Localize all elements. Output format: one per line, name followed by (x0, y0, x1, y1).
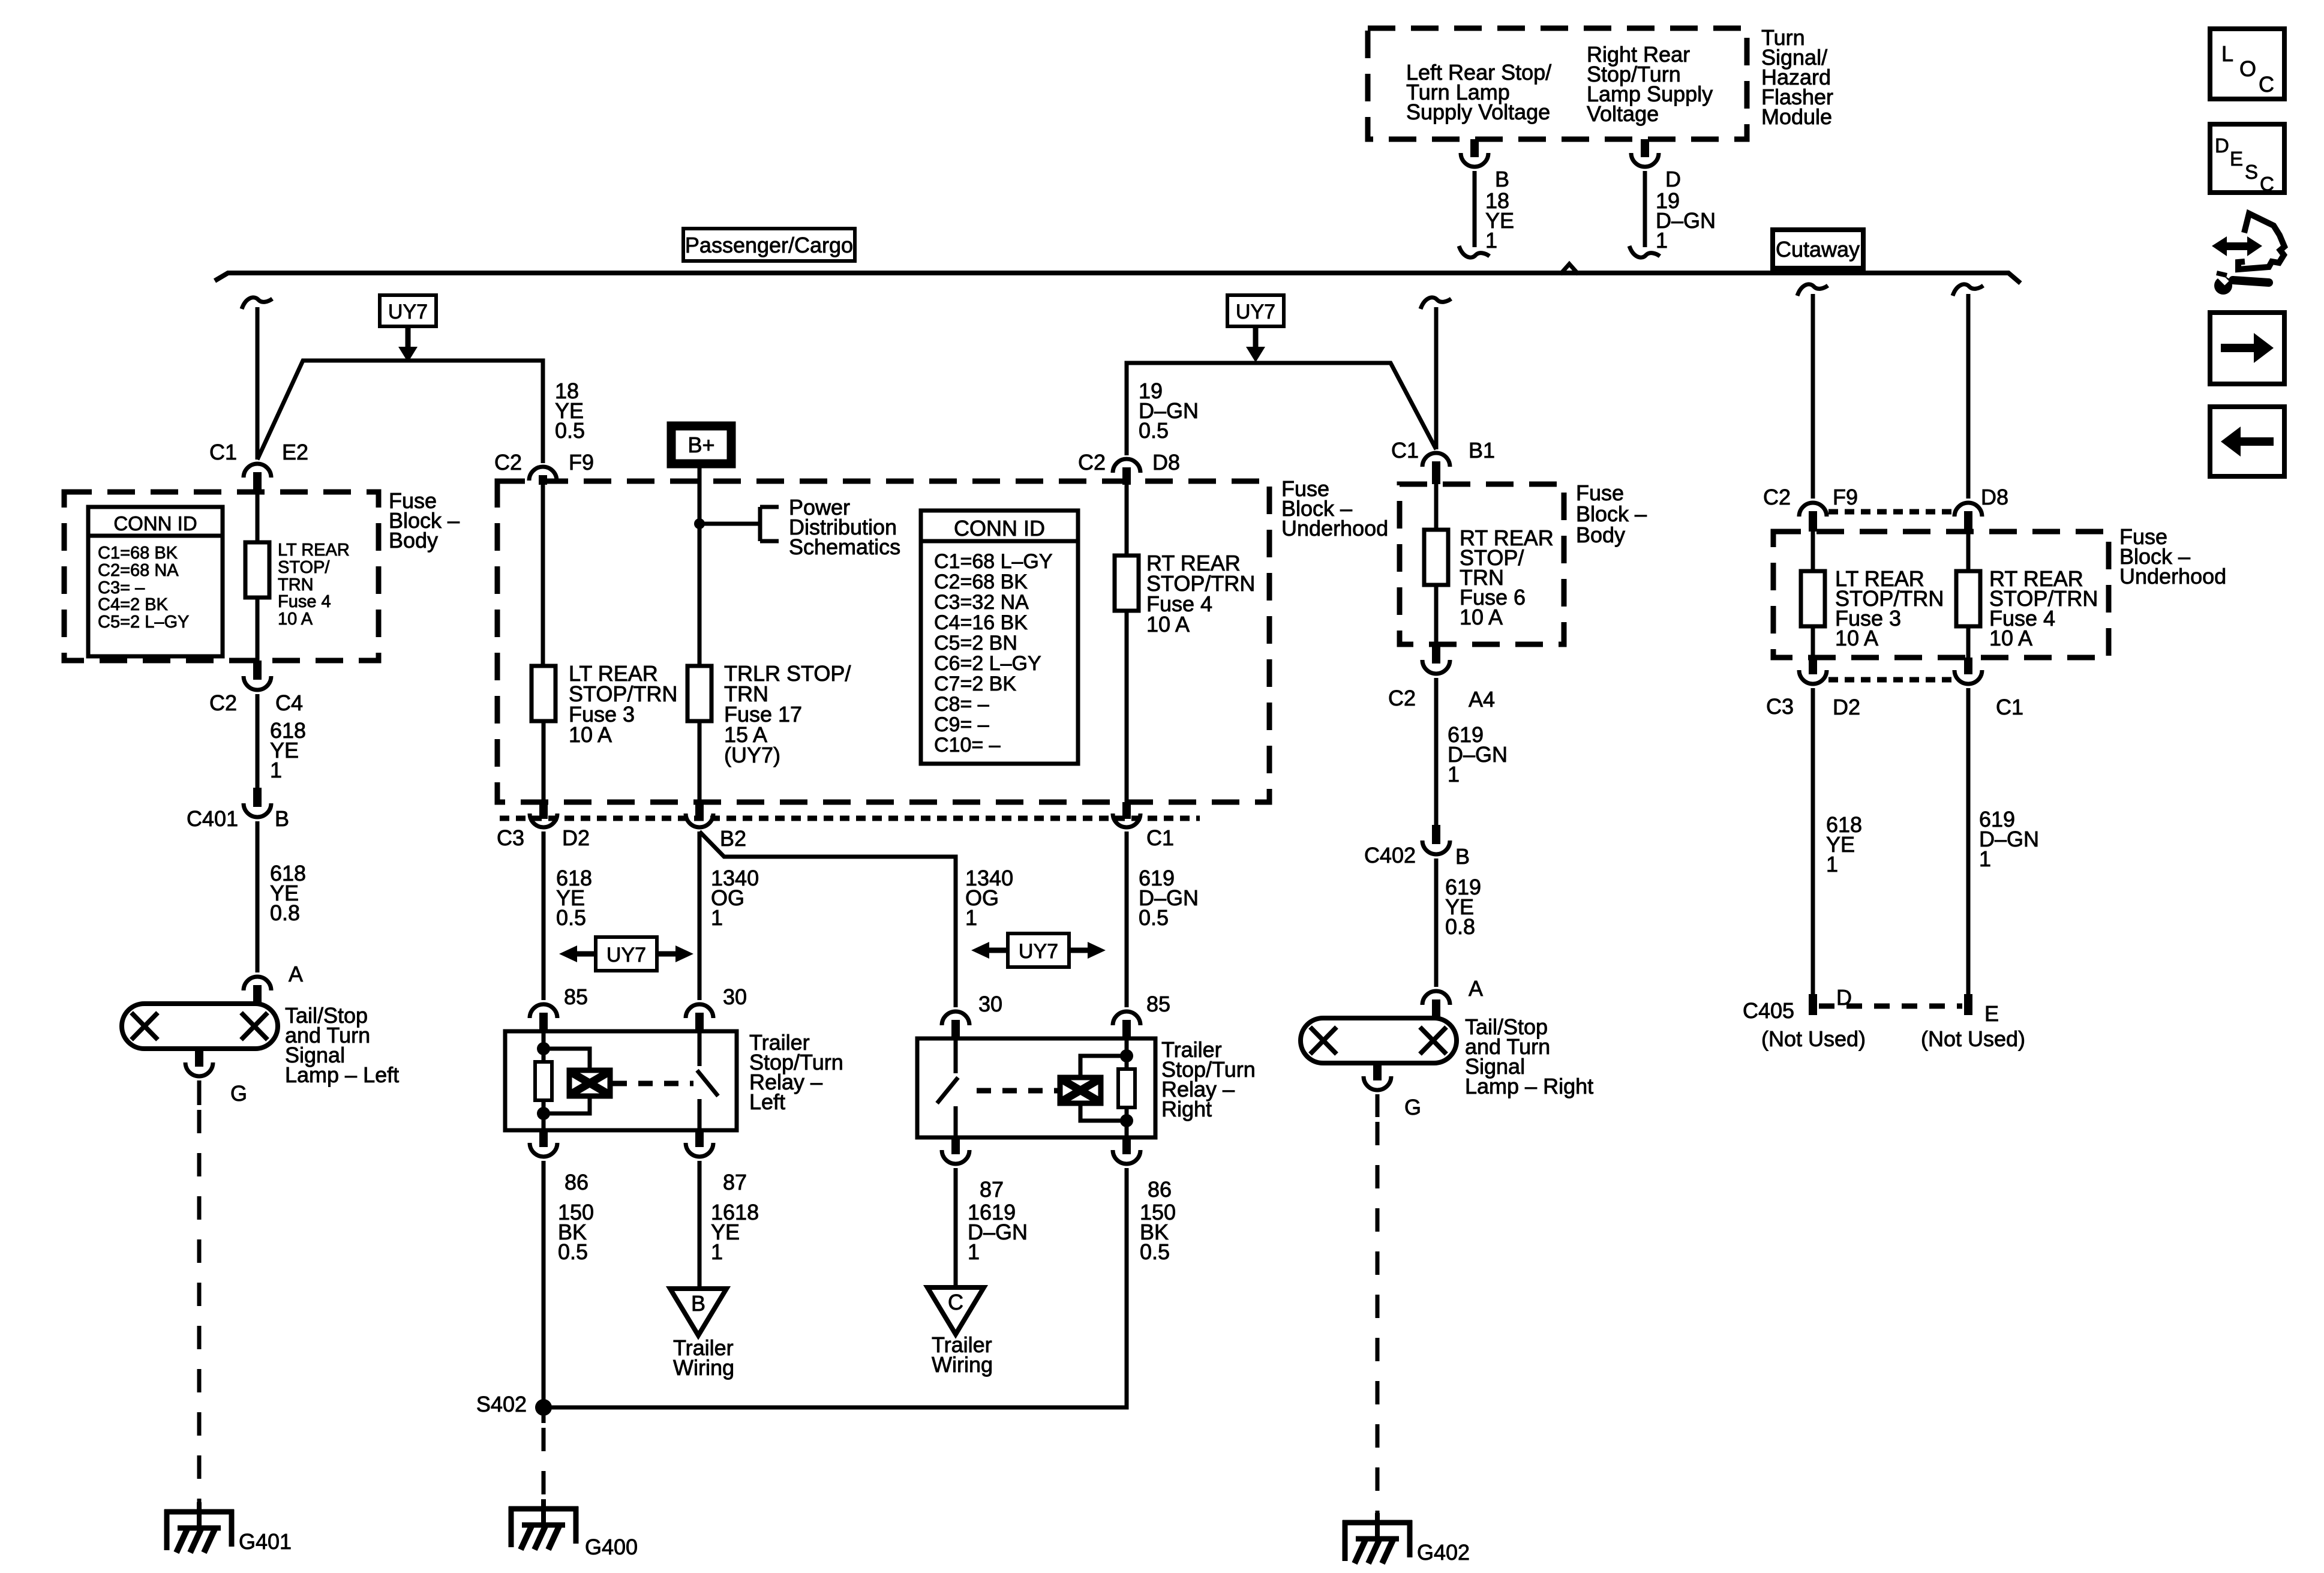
svg-text:C2: C2 (1388, 686, 1416, 710)
svg-text:0.8: 0.8 (270, 900, 300, 925)
icon right-arrow box (2210, 313, 2284, 384)
svg-text:(Not Used): (Not Used) (1761, 1026, 1866, 1051)
connector pin 87 relay left (686, 1130, 747, 1194)
svg-text:UY7: UY7 (388, 301, 428, 323)
svg-text:1: 1 (270, 758, 282, 782)
svg-text:30: 30 (978, 992, 1002, 1016)
resistor relay-right coil suppression (1118, 1069, 1135, 1107)
svg-text:C4: C4 (275, 691, 303, 715)
coil relay-left (569, 1070, 610, 1096)
wire 1619 D-GN 1 from pin 87 right to trailer wiring C (956, 1168, 1028, 1287)
svg-text:1: 1 (1485, 228, 1497, 253)
svg-text:C: C (2259, 72, 2274, 97)
svg-text:C2=68 BK: C2=68 BK (934, 571, 1028, 593)
svg-text:(UY7): (UY7) (724, 743, 780, 767)
icon left-arrow box (2210, 407, 2284, 476)
svg-text:0.8: 0.8 (1445, 914, 1475, 939)
svg-text:0.5: 0.5 (1139, 418, 1169, 443)
connector pin 85 relay left (530, 984, 588, 1031)
wire 1340 OG 1 branch to relay right pin 30 (699, 831, 1013, 1007)
ground G402 (1343, 1513, 1470, 1565)
wire tap to left column (242, 298, 272, 460)
switch contacts relay-right (937, 1038, 958, 1137)
fuse Fuse 6 RT REAR STOP/TRN (body right) (1424, 484, 1554, 644)
off-page triangle B Trailer Wiring (670, 1289, 734, 1380)
svg-text:1: 1 (1979, 846, 1991, 871)
UY7 option box with down arrow (right) (1227, 295, 1284, 362)
svg-text:B1: B1 (1469, 438, 1495, 463)
svg-text:Body: Body (389, 528, 438, 553)
wire 1340 OG 1 to relay left pin 30 (699, 831, 759, 1000)
svg-text:C3=32 NA: C3=32 NA (934, 591, 1029, 614)
wire main supply bus (215, 264, 2020, 283)
wire tap to right column (1421, 298, 1451, 449)
svg-text:B: B (1455, 844, 1470, 869)
svg-text:C1=68 BK: C1=68 BK (98, 544, 178, 563)
svg-text:10 A: 10 A (1146, 612, 1190, 637)
fuse Fuse 4 RT REAR STOP/TRN (cutaway) (1956, 532, 2098, 658)
svg-text:C401: C401 (187, 806, 238, 831)
wire from B+ into fuse block (698, 468, 702, 666)
svg-text:Wiring: Wiring (932, 1352, 993, 1377)
svg-text:Voltage: Voltage (1587, 101, 1659, 126)
svg-text:C1: C1 (1391, 438, 1419, 463)
svg-text:0.5: 0.5 (1139, 905, 1169, 930)
svg-text:Left: Left (749, 1089, 785, 1114)
wire ground dashed to G401 (197, 1110, 202, 1507)
connector C1/E2 at fuse block body left (209, 440, 308, 492)
connector C401/B inline (187, 788, 289, 831)
fuse Fuse 17 TRLR STOP/TRN (underhood) (687, 661, 851, 802)
connector pin 87 relay right (942, 1137, 1004, 1202)
fuse Fuse 3 LT REAR STOP/TRN (cutaway) (1801, 532, 1944, 658)
connector C2/D8 at fuse block underhood (1078, 450, 1180, 485)
coil relay-right (1060, 1077, 1101, 1103)
svg-text:D8: D8 (1981, 485, 2008, 509)
connector C3/D2 at underhood bottom (497, 802, 590, 850)
switch contacts relay-left (697, 1031, 718, 1130)
svg-text:C10= –: C10= – (934, 734, 1001, 757)
svg-text:0.5: 0.5 (558, 1239, 588, 1264)
svg-text:C2: C2 (209, 691, 237, 715)
svg-text:B+: B+ (687, 433, 714, 457)
svg-text:LT REAR: LT REAR (278, 541, 350, 560)
svg-text:E: E (2230, 148, 2243, 170)
svg-text:C405: C405 (1743, 998, 1794, 1023)
connector C405 not used (1743, 985, 2025, 1051)
svg-text:1: 1 (711, 1239, 723, 1264)
svg-text:C9= –: C9= – (934, 713, 989, 736)
svg-text:10 A: 10 A (1835, 626, 1878, 650)
svg-text:UY7: UY7 (1019, 940, 1058, 963)
svg-text:Lamp – Right: Lamp – Right (1465, 1074, 1593, 1098)
svg-text:Body: Body (1576, 523, 1625, 547)
svg-text:85: 85 (1146, 992, 1170, 1016)
svg-text:A: A (1469, 976, 1483, 1001)
svg-text:1: 1 (711, 905, 723, 930)
svg-text:C2: C2 (1763, 485, 1791, 509)
svg-text:C2=68 NA: C2=68 NA (98, 561, 179, 580)
svg-text:10 A: 10 A (1989, 626, 2032, 650)
svg-text:S402: S402 (476, 1392, 527, 1416)
fuse block underhood cutaway (dashed box) (1773, 524, 2226, 658)
connector G at left lamp (185, 1049, 247, 1106)
svg-text:G402: G402 (1417, 1540, 1470, 1565)
connector A at right lamp (1422, 976, 1483, 1019)
wire 19 D-GN 1 from flasher D to bus (1629, 171, 1716, 257)
svg-text:C1=68 L–GY: C1=68 L–GY (934, 550, 1053, 573)
svg-text:G: G (1404, 1095, 1421, 1119)
connector C3/D2 cutaway (1766, 658, 1860, 719)
connector pin 86 relay right (1113, 1137, 1172, 1202)
svg-text:C2: C2 (1078, 450, 1106, 475)
svg-text:UY7: UY7 (1236, 301, 1275, 323)
wire actuation dashed link relay-left (612, 1081, 693, 1086)
svg-text:C3: C3 (1766, 694, 1794, 719)
svg-text:A: A (289, 962, 303, 986)
CONN ID table (fuse block underhood) (921, 511, 1078, 764)
wire 1618 YE 1 from pin 87 left to trailer wiring B (699, 1161, 759, 1289)
svg-text:C8= –: C8= – (934, 693, 989, 716)
svg-text:C2: C2 (494, 450, 522, 475)
svg-text:87: 87 (723, 1170, 747, 1194)
wire 618 YE 0.5 to relay left pin 85 (544, 831, 592, 1000)
svg-text:B: B (1495, 167, 1509, 191)
svg-text:B: B (691, 1291, 705, 1316)
wire connector face line at underhood bottom (500, 816, 1200, 821)
svg-text:C402: C402 (1364, 843, 1416, 867)
node junction to power distribution (694, 495, 900, 559)
svg-text:G: G (230, 1081, 247, 1106)
svg-text:C1: C1 (1996, 695, 2023, 719)
svg-text:B2: B2 (720, 826, 746, 851)
svg-text:E: E (1984, 1001, 1999, 1026)
off-page triangle C Trailer Wiring (927, 1287, 993, 1377)
ground G400 (509, 1499, 638, 1559)
svg-text:E2: E2 (282, 440, 308, 464)
wire connector face line at cutaway top (1828, 509, 1953, 515)
node Passenger/Cargo label (683, 229, 855, 261)
connector C2/F9 cutaway (1763, 485, 1858, 532)
svg-text:Right: Right (1161, 1097, 1212, 1121)
svg-text:1: 1 (1656, 228, 1668, 253)
wire 618 YE 0.8 (257, 821, 306, 972)
svg-text:C6=2 L–GY: C6=2 L–GY (934, 652, 1041, 675)
UY7 option box with double arrows (left) (559, 937, 693, 971)
svg-text:85: 85 (564, 984, 588, 1009)
svg-text:UY7: UY7 (606, 944, 646, 966)
svg-text:D: D (1665, 167, 1681, 191)
icon wrench/double-arrow (2212, 214, 2284, 295)
svg-text:D2: D2 (1833, 695, 1860, 719)
svg-text:10 A: 10 A (278, 610, 313, 629)
svg-text:Fuse 4: Fuse 4 (278, 592, 331, 611)
svg-text:Wiring: Wiring (673, 1355, 734, 1380)
svg-text:1: 1 (1448, 762, 1460, 786)
wire 618 YE 1 cutaway (1813, 688, 1862, 994)
svg-text:0.5: 0.5 (556, 905, 586, 930)
svg-text:G400: G400 (585, 1535, 638, 1559)
node junction dots relay-right (1120, 1049, 1133, 1127)
fuse Fuse 4 RT REAR STOP/TRN (underhood) (1115, 484, 1255, 802)
CONN ID table (fuse block body) (88, 507, 223, 656)
wire connector face line at cutaway bottom (1828, 677, 1953, 683)
connector C1 cutaway (1954, 658, 2023, 719)
svg-text:D8: D8 (1152, 450, 1180, 475)
svg-text:A4: A4 (1469, 687, 1495, 712)
connector C1/B1 at fuse block body right (1391, 438, 1495, 484)
svg-text:C5=2 BN: C5=2 BN (934, 632, 1017, 655)
svg-text:D2: D2 (562, 825, 590, 850)
svg-text:1: 1 (1826, 852, 1838, 876)
svg-text:D: D (1836, 985, 1852, 1010)
svg-text:0.5: 0.5 (1140, 1239, 1170, 1264)
svg-text:0.5: 0.5 (555, 418, 585, 443)
connector pin D of flasher module (1631, 139, 1681, 191)
lamp Tail/Stop and Turn Signal Lamp - Left (122, 1003, 399, 1087)
svg-text:G401: G401 (239, 1529, 292, 1554)
svg-text:10 A: 10 A (1460, 605, 1503, 629)
connector pin 85 relay right (1113, 992, 1170, 1038)
B+ power feed symbol (671, 426, 731, 464)
svg-text:L: L (2221, 41, 2233, 66)
wire actuation dashed link relay-right (977, 1088, 1058, 1094)
connector C2/F9 at fuse block underhood (494, 450, 594, 485)
UY7 option box with down arrow (left) (380, 295, 436, 362)
UY7 option box with double arrows (right) (971, 933, 1106, 967)
icon DESC box (2210, 124, 2284, 195)
wire relay-right coil branch (1080, 1038, 1127, 1137)
svg-text:D: D (2215, 134, 2229, 157)
svg-text:30: 30 (723, 984, 747, 1009)
svg-text:Supply Voltage: Supply Voltage (1406, 100, 1550, 124)
connector A at left lamp (244, 962, 303, 1005)
fuse block underhood (dashed box) (497, 476, 1388, 802)
connector pin 30 relay right (942, 992, 1002, 1038)
wire 150 BK 0.5 from pin 86 left to S402 (544, 1161, 594, 1407)
node Cutaway label (1773, 230, 1863, 268)
svg-text:B: B (275, 806, 289, 831)
svg-text:CONN ID: CONN ID (954, 516, 1045, 541)
fuse block body left (dashed box) (64, 488, 460, 661)
connector C1 at underhood bottom (1113, 802, 1174, 850)
relay K2 Trailer Stop/Turn Relay - Right (case) (917, 1037, 1256, 1137)
wire 619 D-GN 1 (1436, 678, 1508, 826)
svg-text:1: 1 (968, 1239, 980, 1264)
wire dashed from S402 to G400 (542, 1407, 546, 1504)
connector B2 at underhood bottom (686, 802, 746, 851)
wire tap to cutaway left column (1797, 284, 1828, 499)
svg-text:C5=2 L–GY: C5=2 L–GY (98, 613, 189, 632)
wire UY7 branch left (18 YE 0.5) (257, 361, 585, 463)
connector C2/C4 (209, 661, 303, 715)
fuse Fuse 3 LT REAR STOP/TRN (underhood) (532, 484, 677, 802)
svg-text:C4=16 BK: C4=16 BK (934, 611, 1028, 634)
wire tap to cutaway right column (1953, 284, 1983, 499)
fuse F4 LT REAR STOP/TRN (body) (245, 492, 350, 661)
svg-text:Underhood: Underhood (1281, 516, 1388, 541)
connector D8 cutaway (1954, 485, 2008, 532)
svg-text:86: 86 (1148, 1177, 1172, 1202)
svg-text:O: O (2239, 56, 2256, 81)
svg-text:C1: C1 (209, 440, 237, 464)
svg-text:Underhood: Underhood (2119, 564, 2226, 589)
wire 618 YE 1 (257, 694, 306, 789)
node splice S402 (476, 1392, 552, 1416)
svg-text:STOP/: STOP/ (278, 558, 330, 577)
wire 18 YE 1 from flasher B to bus (1459, 171, 1514, 257)
svg-text:S: S (2245, 161, 2258, 183)
svg-text:10 A: 10 A (569, 722, 612, 747)
wire 619 D-GN 0.5 to relay right pin 85 (1127, 831, 1199, 1007)
svg-text:C: C (948, 1290, 963, 1314)
lamp Tail/Stop and Turn Signal Lamp - Right (1301, 1014, 1593, 1098)
connector pin 86 relay left (530, 1130, 588, 1194)
connector pin 30 relay left (686, 984, 747, 1031)
svg-text:F9: F9 (569, 450, 594, 475)
svg-text:(Not Used): (Not Used) (1921, 1026, 2025, 1051)
flasher module: Turn Signal/Hazard Flasher Module (1368, 25, 1833, 139)
relay K1 Trailer Stop/Turn Relay - Left (case) (505, 1030, 843, 1130)
node junction dots relay-left (537, 1042, 550, 1120)
svg-text:C3: C3 (497, 825, 524, 850)
wire relay-left coil branch (544, 1031, 590, 1130)
svg-text:C1: C1 (1146, 825, 1174, 850)
svg-text:CONN ID: CONN ID (113, 512, 197, 535)
connector pin B of flasher module (1461, 139, 1509, 191)
connector C402/B inline (1364, 825, 1470, 869)
fuse block body right (dashed box) (1400, 481, 1647, 644)
wire 619 YE 0.8 (1436, 858, 1481, 987)
svg-text:Passenger/Cargo: Passenger/Cargo (685, 233, 853, 257)
ground G401 (164, 1502, 292, 1554)
svg-text:87: 87 (980, 1177, 1004, 1202)
wire ground dashed to G402 (1376, 1122, 1380, 1518)
svg-text:C7=2 BK: C7=2 BK (934, 673, 1016, 695)
svg-text:Module: Module (1761, 104, 1832, 129)
svg-text:C4=2 BK: C4=2 BK (98, 595, 169, 614)
svg-text:Lamp – Left: Lamp – Left (285, 1062, 399, 1087)
connector C2/A4 (1388, 644, 1495, 712)
svg-text:Cutaway: Cutaway (1776, 237, 1860, 262)
svg-text:1: 1 (965, 905, 977, 930)
svg-text:86: 86 (565, 1170, 588, 1194)
svg-text:F9: F9 (1833, 485, 1858, 509)
svg-text:Schematics: Schematics (789, 535, 900, 559)
connector G at right lamp (1364, 1062, 1421, 1119)
wire 150 BK 0.5 from pin 86 right to S402 (544, 1168, 1176, 1407)
svg-text:C: C (2260, 173, 2274, 195)
resistor relay-left coil suppression (535, 1062, 552, 1100)
icon LOC box (2210, 29, 2284, 99)
wire UY7 branch right (19 D-GN 0.5) (1127, 363, 1436, 455)
wire 619 D-GN 1 cutaway (1968, 688, 2039, 994)
